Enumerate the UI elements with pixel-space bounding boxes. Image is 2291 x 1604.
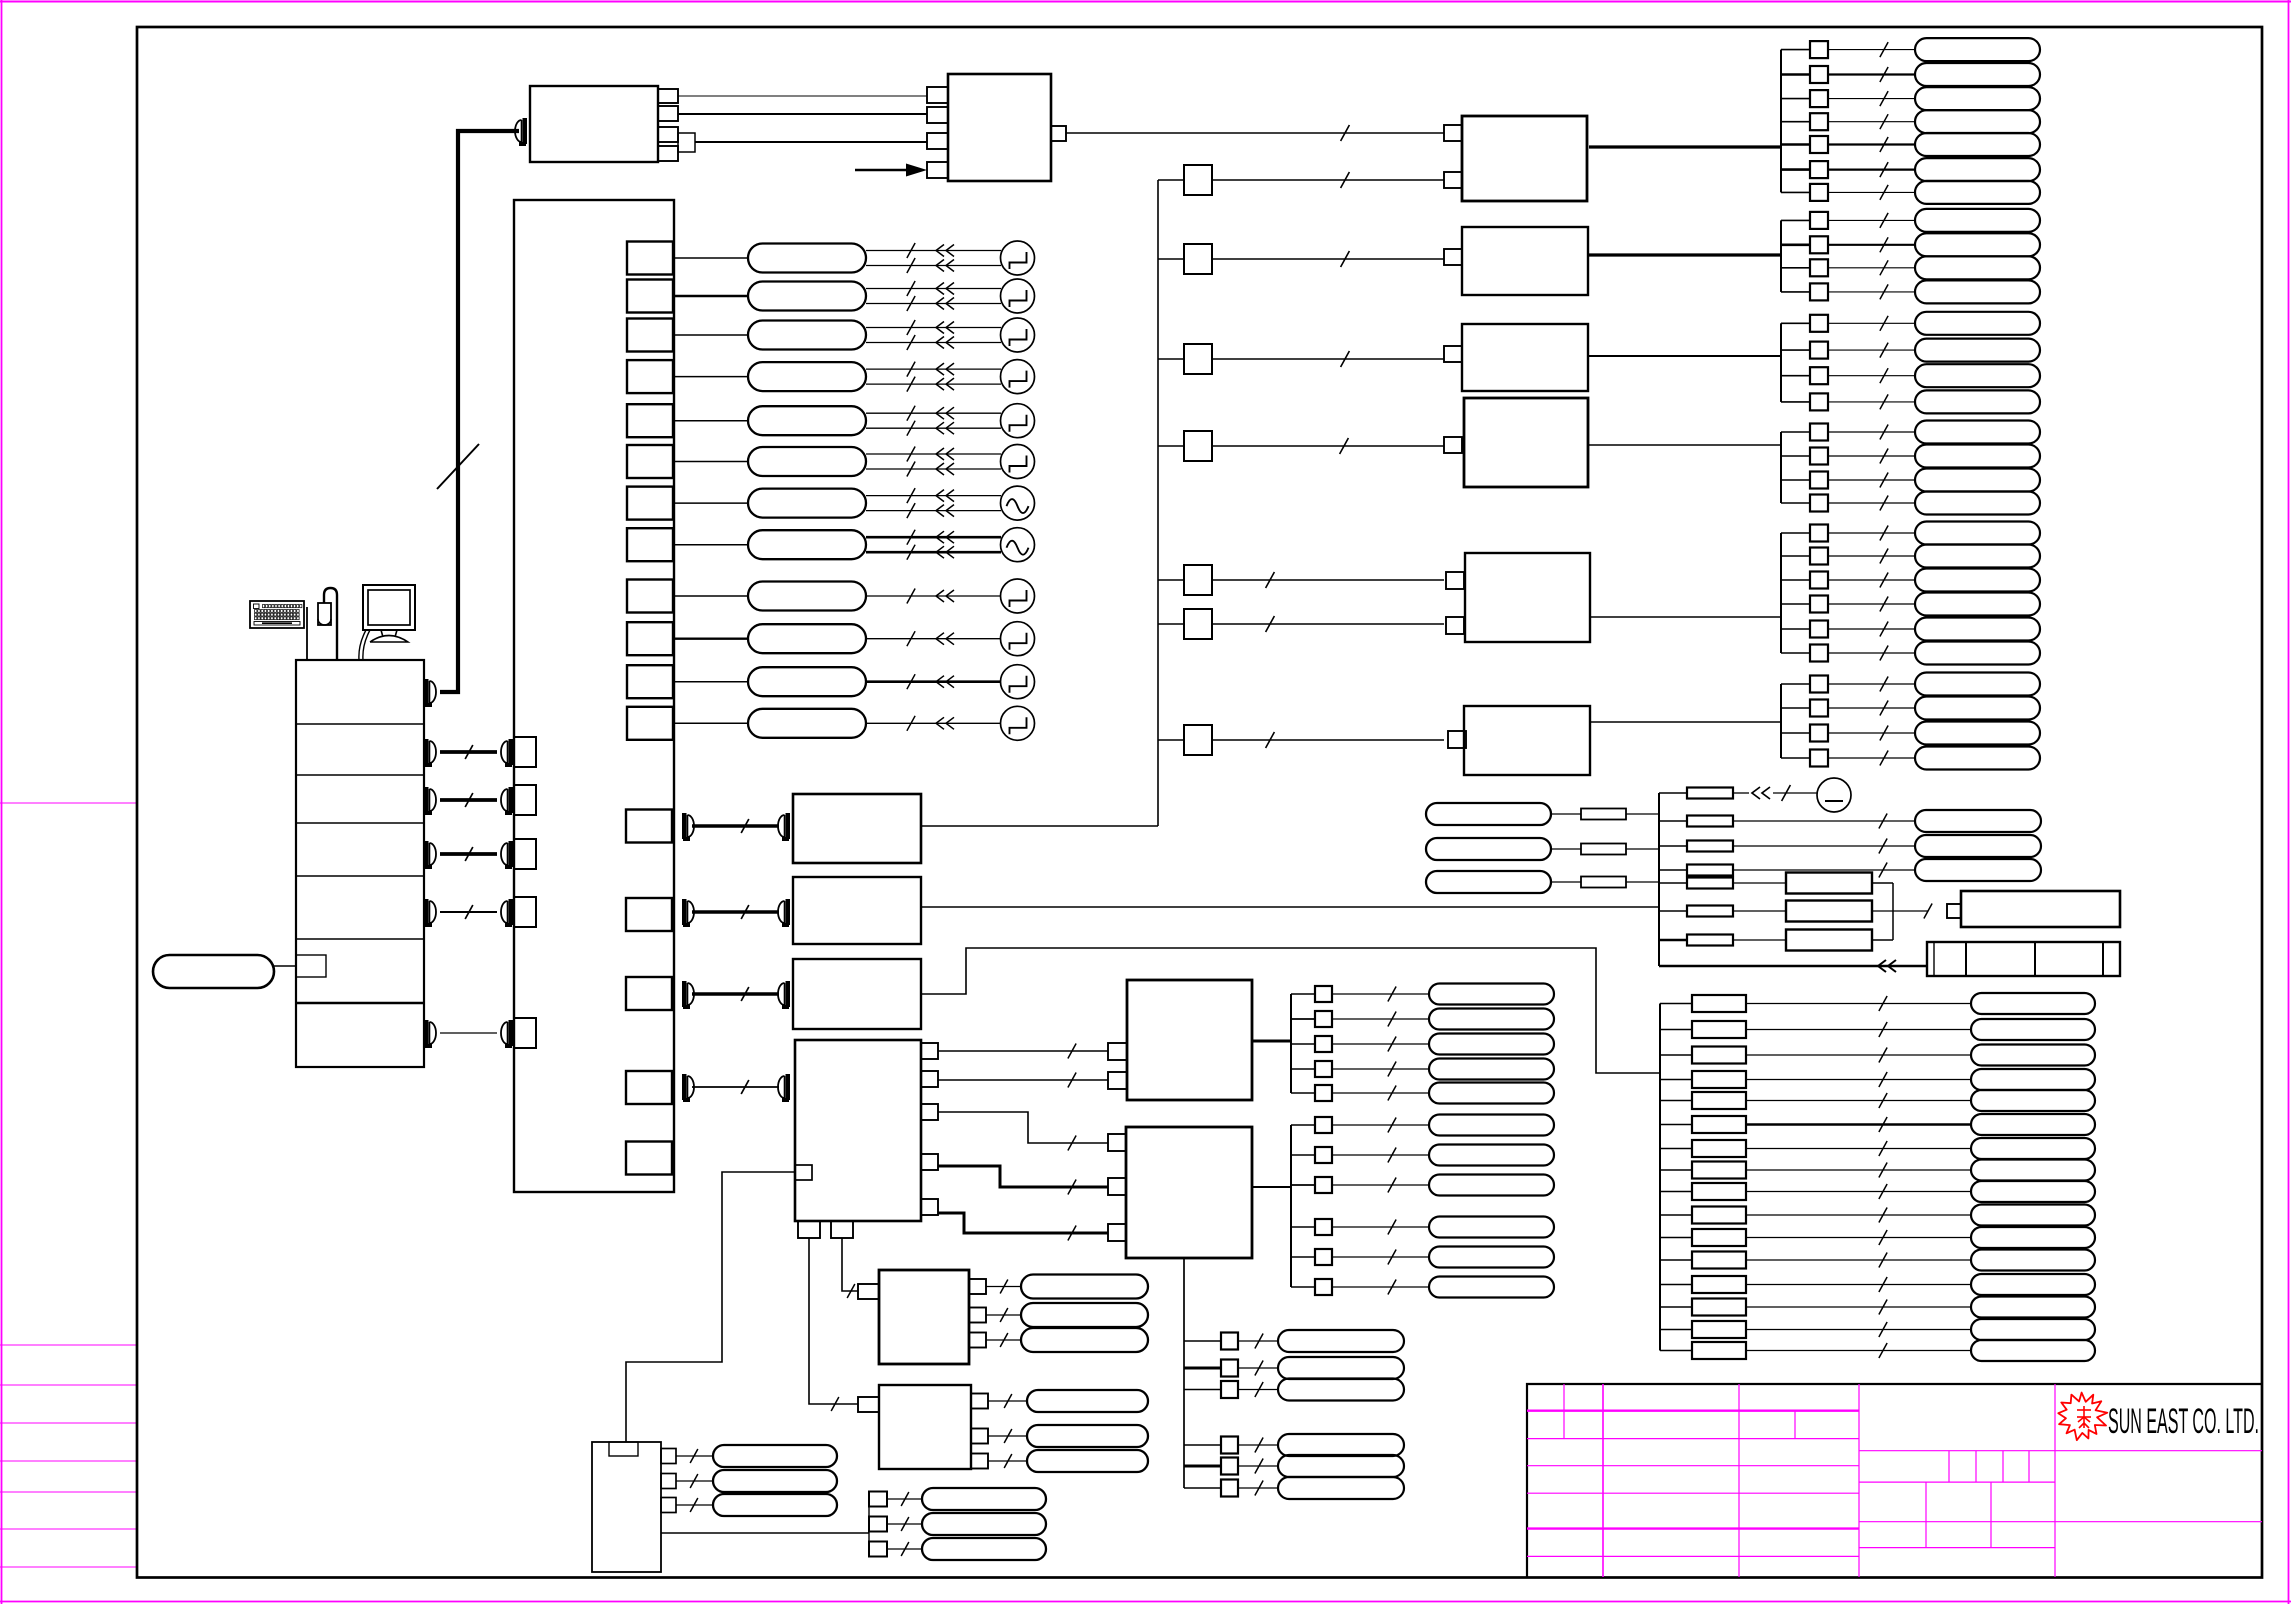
wire <box>1212 445 1444 447</box>
bus-count slash <box>907 545 915 560</box>
wire <box>866 680 1001 683</box>
monitor cable <box>359 630 370 660</box>
signal stadium <box>1915 673 2040 696</box>
bus io box 8 <box>627 528 673 561</box>
wire <box>1828 291 1915 293</box>
box P1 left pin <box>858 1284 879 1299</box>
signal stadium <box>1429 1059 1554 1080</box>
monitor <box>363 585 415 630</box>
wire <box>1781 121 1810 123</box>
wire <box>1332 1154 1429 1156</box>
signal stadium <box>713 1494 837 1516</box>
wire <box>1332 1286 1429 1288</box>
signal stadium <box>1021 1328 1148 1352</box>
keyboard cable <box>306 607 308 660</box>
flow chevrons <box>1752 787 1760 799</box>
signal stadium <box>1971 1090 2095 1111</box>
fuse rect <box>1581 809 1626 820</box>
wire A2-B2 <box>678 113 927 115</box>
bus-count slash <box>1341 251 1350 267</box>
signal stadium <box>1915 339 2040 362</box>
timer circle 11 <box>1001 665 1035 699</box>
wire <box>1781 191 1810 193</box>
wire <box>1828 555 1915 557</box>
box N2 pin 3 <box>1108 1224 1126 1241</box>
bus-count slash <box>1880 213 1888 228</box>
connector pair right <box>786 981 791 1007</box>
wire <box>1158 179 1184 181</box>
tap square <box>1810 725 1828 742</box>
wire M2 out <box>921 906 1659 908</box>
bus-count slash <box>907 503 915 518</box>
signal stadium <box>1915 747 2040 770</box>
wire <box>1212 623 1444 625</box>
wire <box>866 327 1001 329</box>
wire <box>1238 1487 1278 1489</box>
bus-count slash <box>1000 1308 1008 1322</box>
bus-count slash <box>907 362 915 377</box>
signal stadium <box>1915 569 2040 592</box>
wire <box>1291 1018 1315 1020</box>
flow chevrons <box>936 337 944 349</box>
wire <box>1781 168 1810 171</box>
wire <box>1291 1286 1315 1288</box>
box R5 pin 2 <box>1446 617 1464 634</box>
wire <box>676 1504 713 1506</box>
tap square <box>1810 212 1828 229</box>
box B out pin <box>1051 126 1066 141</box>
device box <box>1961 891 2120 927</box>
tap square <box>1810 184 1828 201</box>
wire <box>1291 1154 1315 1156</box>
wire <box>1551 881 1581 883</box>
box M4 bottom pin 1 <box>798 1221 820 1238</box>
box B pin 2 <box>927 107 948 123</box>
wire battery <box>1659 965 1926 967</box>
wire box-R out <box>1589 355 1781 357</box>
timer circle 10 <box>1001 622 1035 656</box>
wire <box>1746 1054 1971 1056</box>
bus-count slash <box>901 1492 909 1506</box>
wire <box>1660 1329 1692 1331</box>
signal stadium <box>1915 158 2040 181</box>
mouse cable <box>324 588 337 660</box>
wire <box>1828 603 1915 605</box>
bus-count slash <box>1880 67 1888 82</box>
bus-count slash <box>1879 1141 1887 1156</box>
wire <box>1781 683 1810 685</box>
wire <box>673 376 748 378</box>
signal stadium 12 <box>748 709 866 738</box>
wire <box>1184 1367 1221 1370</box>
title block cell divider <box>1925 1482 1927 1548</box>
wire <box>1746 1237 1971 1239</box>
wire <box>887 1523 922 1525</box>
margin zone line <box>0 1491 137 1493</box>
wire <box>1332 1043 1429 1045</box>
bus-count slash <box>1880 162 1888 177</box>
timer circle 9 <box>1001 579 1035 613</box>
box N2 pin 1 <box>1108 1134 1126 1151</box>
tap square <box>1810 259 1828 276</box>
wire <box>1828 191 1915 193</box>
wire <box>1659 882 1687 884</box>
flow chevrons <box>936 463 944 475</box>
cable wire <box>440 1032 497 1034</box>
wire M4-N1 a <box>938 1050 1108 1052</box>
box M4 out pin 4 <box>921 1154 938 1170</box>
wire <box>1828 579 1915 581</box>
box P1 out pin <box>969 1279 986 1294</box>
bus-count slash <box>690 1449 698 1463</box>
wire <box>1746 1029 1971 1031</box>
wire <box>673 722 748 724</box>
wire <box>1212 358 1444 360</box>
connector rack <box>424 841 429 867</box>
wire <box>1746 1191 1971 1193</box>
bus-count slash <box>1255 1481 1263 1496</box>
wire <box>988 1460 1027 1462</box>
signal stadium 5 <box>748 406 866 435</box>
signal stadium <box>1027 1450 1148 1472</box>
box M4 bottom pin 2 <box>831 1221 853 1238</box>
wire <box>1332 993 1429 995</box>
wire <box>676 1480 713 1482</box>
bus-count slash <box>1880 573 1888 588</box>
box M4 out pin 1 <box>921 1043 938 1059</box>
box R3 <box>1462 324 1588 391</box>
wire <box>1551 813 1581 815</box>
wire <box>1781 479 1810 481</box>
wire <box>1781 291 1810 293</box>
wire <box>673 334 748 336</box>
wire <box>866 265 1001 267</box>
flow chevrons <box>936 407 944 419</box>
wire <box>1828 121 1915 123</box>
wire N2 out <box>1252 1186 1291 1188</box>
tap square <box>1810 448 1828 465</box>
fuse rect <box>1687 878 1733 889</box>
bus-count slash <box>1782 785 1791 801</box>
signal stadium <box>1429 1083 1554 1104</box>
signal stadium <box>1915 697 2040 720</box>
title block divider <box>2054 1384 2056 1577</box>
connector boxA-left <box>523 118 528 144</box>
title block row line <box>1527 1492 1859 1494</box>
bus-count slash <box>1880 726 1888 741</box>
bus-count slash <box>465 905 473 919</box>
bus-count slash <box>907 377 915 392</box>
bus-count slash <box>1879 1072 1887 1087</box>
signal stadium <box>1429 1009 1554 1030</box>
timer circle 2 <box>1001 279 1035 313</box>
bus-count slash <box>907 716 915 731</box>
wire <box>1291 1184 1315 1186</box>
wire <box>1781 532 1810 534</box>
box B pin 1 <box>927 87 948 103</box>
wire <box>1872 910 1928 912</box>
bus-count slash <box>1255 1438 1263 1453</box>
flow chevrons <box>936 546 944 558</box>
tap square <box>1315 1219 1332 1235</box>
wire <box>1781 73 1810 76</box>
wire <box>1212 179 1444 181</box>
tap square <box>1810 548 1828 565</box>
box P2 out pin <box>971 1429 988 1444</box>
connector bus-side <box>509 739 514 765</box>
wire <box>1158 579 1184 581</box>
signal stadium <box>1915 364 2040 387</box>
wire <box>1746 1100 1971 1102</box>
wire M1 out <box>921 825 1158 827</box>
wire <box>1828 169 1915 171</box>
wire <box>673 595 748 597</box>
bus-count slash <box>901 1517 909 1531</box>
wire N1 out <box>1252 1040 1291 1043</box>
bus-count slash <box>1879 1208 1887 1223</box>
wire <box>1746 1079 1971 1081</box>
bus io box 10 <box>627 622 673 655</box>
box R6 <box>1464 706 1590 775</box>
wire <box>866 288 1001 290</box>
wire <box>1746 1214 1971 1216</box>
trunk N2-bottom <box>1183 1258 1185 1488</box>
tap square <box>1810 236 1828 253</box>
source stadium <box>1426 871 1551 893</box>
cable wire <box>440 798 497 802</box>
box R4 pin <box>1444 437 1462 453</box>
wire <box>866 303 1001 305</box>
bus port square <box>514 839 536 869</box>
bus port square <box>514 737 536 767</box>
wire <box>274 965 296 967</box>
connector rack <box>424 899 429 925</box>
bus-count slash <box>1388 1037 1396 1052</box>
wire <box>1781 98 1810 100</box>
signal stadium <box>1915 38 2040 61</box>
trunk tap square <box>1184 725 1212 755</box>
cable wire <box>440 750 497 754</box>
wire <box>1659 845 1687 847</box>
bus-count slash <box>1880 260 1888 275</box>
wire <box>676 1455 713 1457</box>
fuse rect <box>1692 1321 1746 1338</box>
signal stadium 9 <box>748 582 866 611</box>
bus-count slash <box>1341 125 1350 141</box>
connector pair left <box>682 813 687 839</box>
flow chevrons <box>936 531 944 543</box>
signal stadium <box>1278 1379 1404 1401</box>
wire M4-P1 <box>842 1238 858 1291</box>
wire <box>1733 882 1786 884</box>
bus-count slash <box>690 1474 698 1488</box>
bus-count slash <box>1880 137 1888 152</box>
bus-count slash <box>907 462 915 477</box>
wire <box>1212 579 1444 581</box>
signal stadium <box>1915 618 2040 641</box>
wire <box>866 250 1001 252</box>
bus-count slash <box>901 1542 909 1556</box>
wire <box>1184 1340 1221 1342</box>
tap square <box>1810 161 1828 178</box>
wire <box>1212 258 1444 260</box>
wire <box>887 1498 922 1500</box>
battery cell divider <box>1965 942 1967 976</box>
wire <box>1781 502 1810 504</box>
signal stadium <box>1429 1115 1554 1136</box>
connector pair left <box>682 981 687 1007</box>
wire <box>866 536 1001 539</box>
wire <box>1733 910 1786 912</box>
logo sun burst <box>2058 1393 2107 1441</box>
wire <box>1551 848 1581 850</box>
box N1 pin 1 <box>1108 1043 1127 1060</box>
bus-count slash <box>1879 1322 1887 1337</box>
bus-count slash <box>1879 1230 1887 1245</box>
wire <box>1828 401 1915 403</box>
signal stadium <box>1429 1034 1554 1055</box>
margin zone line <box>0 1566 137 1568</box>
box A pin 3 <box>658 127 678 142</box>
trunk tap square <box>1184 565 1212 595</box>
title block divider <box>1858 1384 1860 1577</box>
keyboard <box>250 601 304 628</box>
bus io box 12 <box>627 707 673 740</box>
bus-count slash <box>1879 1343 1887 1358</box>
box A sub pin <box>678 133 695 152</box>
cable break slash <box>437 444 479 489</box>
flow chevrons <box>936 298 944 310</box>
tap square <box>1810 750 1828 767</box>
wire <box>1158 258 1184 260</box>
wire <box>1660 1054 1692 1056</box>
bus-count slash <box>1255 1361 1263 1376</box>
fuse rect <box>1692 1071 1746 1088</box>
signal stadium <box>1915 810 2041 832</box>
bracket Q <box>868 1499 870 1549</box>
flow chevrons <box>936 505 944 517</box>
fuse rect <box>1692 1276 1746 1293</box>
wire <box>1332 1124 1429 1126</box>
signal stadium 8 <box>748 530 866 559</box>
wire <box>1659 820 1687 822</box>
wire <box>1872 939 1893 941</box>
title block row line <box>1859 1547 2055 1549</box>
bus io box 7 <box>627 487 673 520</box>
wire <box>1660 1148 1692 1150</box>
bus-count slash <box>1004 1454 1012 1468</box>
bus-count slash <box>1880 114 1888 129</box>
fuse rect <box>1692 1299 1746 1316</box>
wire <box>1828 375 1915 377</box>
signal stadium <box>1915 87 2040 110</box>
wire <box>1733 939 1786 941</box>
bus-count slash <box>1880 237 1888 252</box>
signal stadium <box>1915 522 2040 545</box>
wire <box>1828 322 1915 324</box>
bus io box 11 <box>627 665 673 698</box>
wire <box>866 453 1001 455</box>
wire <box>1184 1389 1221 1391</box>
title block cell divider <box>2028 1451 2030 1482</box>
wire <box>1781 732 1810 734</box>
fuse rect <box>1687 865 1733 876</box>
bus-count slash <box>1388 1062 1396 1077</box>
wire <box>1660 1214 1692 1216</box>
wire <box>1184 1465 1221 1468</box>
box R6 pin <box>1448 731 1466 748</box>
bus-count slash <box>1388 1220 1396 1235</box>
wire <box>1781 219 1810 221</box>
signal stadium <box>1971 1340 2095 1361</box>
tap square <box>1221 1480 1238 1497</box>
tap square <box>1221 1333 1238 1350</box>
wire <box>866 510 1001 512</box>
wire <box>1659 792 1687 794</box>
box Q <box>592 1442 661 1572</box>
wire box-R out <box>1589 253 1781 256</box>
bus lower box 3 <box>626 977 672 1010</box>
box N2 <box>1126 1127 1252 1258</box>
wire box-R out <box>1589 616 1781 618</box>
wire M4-N2 a <box>938 1112 1108 1143</box>
signal stadium <box>1971 1138 2095 1159</box>
tap square <box>1810 315 1828 332</box>
wire M4-P2 <box>809 1238 858 1404</box>
wire <box>1660 1306 1692 1308</box>
bus-count slash <box>1879 1093 1887 1108</box>
signal stadium <box>1278 1357 1404 1379</box>
box A pin 4 <box>658 146 678 161</box>
bus-count slash <box>1880 496 1888 511</box>
box R1 <box>1462 116 1587 201</box>
bus-count slash <box>1879 1253 1887 1268</box>
timer circle 4 <box>1001 360 1035 394</box>
timer circle 8 <box>1001 528 1035 562</box>
wire <box>1746 1350 1971 1352</box>
bus-count slash <box>1879 1117 1887 1132</box>
wire <box>1660 1003 1692 1005</box>
wire <box>1781 555 1810 557</box>
tie bar <box>1892 883 1894 940</box>
box B pin 3 <box>927 133 948 149</box>
tap square <box>1810 90 1828 107</box>
meter circle <box>1817 778 1851 812</box>
bus-count slash <box>741 1080 749 1094</box>
title block row line <box>1859 1521 2262 1523</box>
box Q out pin <box>661 1498 676 1513</box>
wire <box>1746 1003 1971 1005</box>
bus-count slash <box>907 335 915 350</box>
wire <box>673 461 748 463</box>
bus io box 5 <box>627 404 673 437</box>
title block divider <box>1738 1384 1740 1577</box>
wire <box>1660 1350 1692 1352</box>
fuse rect <box>1692 1252 1746 1269</box>
cable wire <box>692 992 779 996</box>
battery inner edge <box>1933 942 1935 976</box>
tap square <box>1315 986 1332 1002</box>
cable wire <box>692 824 779 827</box>
wire <box>1828 683 1915 685</box>
bus-count slash <box>465 793 473 807</box>
wire <box>1781 707 1810 709</box>
relay rect <box>1786 873 1872 894</box>
tap square <box>1810 342 1828 359</box>
bus-count slash <box>1004 1394 1012 1408</box>
title block row line <box>1527 1438 1859 1440</box>
fanout bracket G6 <box>1780 684 1782 758</box>
